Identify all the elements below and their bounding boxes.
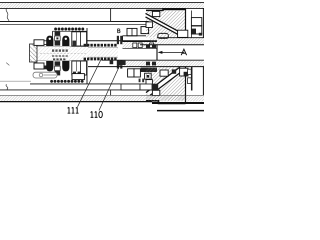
mechanism bottom edge <box>30 83 152 85</box>
center stack top <box>55 32 61 36</box>
dome bottom left <box>46 61 53 71</box>
coil row top <box>54 28 84 31</box>
upper-left box <box>34 40 44 46</box>
bottom-right pipe inner line <box>102 59 204 61</box>
snap rings top <box>117 36 119 44</box>
central mechanism <box>30 28 153 84</box>
bottom pill sleeve <box>33 72 57 78</box>
outer casing bottom wall <box>0 95 204 101</box>
left hatched block <box>30 44 38 62</box>
joint vertical top <box>110 8 112 21</box>
coil row bottom <box>50 80 84 83</box>
dome top right <box>62 36 69 46</box>
break squiggle bottom-left <box>6 84 8 90</box>
tube end notch <box>146 22 152 28</box>
label 111 <box>68 107 79 113</box>
boxes on piston top <box>127 28 137 35</box>
inner tube top wall (two lines) <box>0 21 149 23</box>
bottom tube end notch <box>146 80 152 86</box>
bottom-left wall marks <box>110 61 114 65</box>
dark squares at wedge base <box>146 45 150 49</box>
piston block top wall <box>123 41 158 48</box>
wedge white boxes <box>152 11 159 16</box>
top wedge hatch <box>146 11 186 38</box>
lower guide blocks <box>128 69 134 77</box>
lower-left box <box>34 63 44 69</box>
dome bottom right <box>62 61 69 71</box>
leader line 110 <box>99 61 122 111</box>
break squiggle top-left <box>6 9 9 22</box>
mandrel shank (light section) <box>88 48 118 58</box>
outer casing top wall (hatched band) <box>0 2 204 8</box>
label 110 <box>91 111 103 117</box>
bottom wedge hatch <box>146 67 186 101</box>
right pipe top thick edge <box>146 9 186 10</box>
end plate top <box>185 9 187 38</box>
right box bottom <box>72 61 87 75</box>
bottom boxes right <box>160 70 168 76</box>
snap rings bottom <box>117 60 119 68</box>
lower connector boxes <box>121 84 140 90</box>
leader line 111 <box>78 58 103 107</box>
bottom-right pipe bar <box>152 102 204 104</box>
wedge diagonal channel <box>146 13 186 37</box>
mandrel top line right <box>87 40 157 42</box>
section arrow A <box>156 45 158 61</box>
bottom wedge white box <box>152 90 159 95</box>
mechanism mid body (light detail) <box>33 47 88 61</box>
thread dash row top <box>84 44 117 47</box>
bottom small box <box>72 74 84 80</box>
B mark <box>118 29 121 33</box>
end plate bottom <box>185 67 187 104</box>
pill seal right <box>158 33 169 38</box>
right box top <box>72 32 87 46</box>
dome top left <box>46 36 53 46</box>
bottom pipe wall hatched <box>120 61 204 67</box>
inner tube bottom wall lines <box>0 80 31 82</box>
small break tick left <box>6 63 9 66</box>
center stack bottom <box>55 61 61 65</box>
mech outer verticals <box>86 28 88 46</box>
bottom wedge channel <box>146 67 184 95</box>
right pipe wall top (hatched) <box>140 38 204 45</box>
thread dash row bottom <box>84 58 117 61</box>
bottom pipe thick edge <box>146 101 186 104</box>
